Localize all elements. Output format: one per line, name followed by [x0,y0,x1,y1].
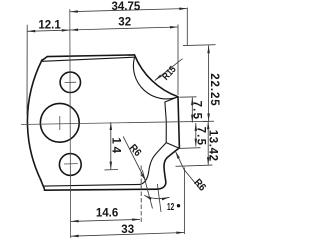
svg-text:32: 32 [118,17,131,29]
leader R6 upper [123,137,146,182]
vertical hole centerline [69,9,72,238]
top small circle horizontal tick [65,81,77,83]
dim 14 line [110,122,112,169]
top-left chamfer [42,57,48,61]
dimension graphics [27,8,216,237]
svg-text:13.42: 13.42 [207,130,219,161]
dim 33 extension line right [183,168,185,235]
bottom edge bevel line [44,184,140,186]
bottom edge outer [44,189,157,190]
big hole [40,103,79,142]
angle 12 dimension arc [144,195,169,198]
angle 12 construction line B [157,184,161,212]
knife body outline [27,55,179,190]
horizontal big-circle centerline [21,121,207,124]
tail inner bevel S-curve [140,143,166,185]
dim 22.25 line [208,45,210,121]
dim 34.75 line [70,9,187,12]
svg-text:12: 12 [167,202,174,213]
bottom small hole [59,154,81,176]
leader R6 lower [175,151,200,189]
svg-text:12.1: 12.1 [38,19,61,31]
bottom small circle horizontal tick [64,163,78,165]
dim 12.1 extension line left [26,25,28,115]
svg-text:34.75: 34.75 [112,1,141,13]
dim 22.25 bottom tick [203,120,214,122]
R15 outer arc [135,55,179,97]
dimension texts [38,1,220,236]
top edge bevel line [42,57,134,61]
right land outer edge [178,97,179,149]
svg-text:14: 14 [110,137,122,153]
tail outer S-curve [157,148,179,189]
big circle vertical tick [59,116,61,130]
dim 7.5 lower line [195,123,197,146]
svg-text:R15: R15 [160,64,179,83]
top small hole [60,72,80,92]
bottom-left chamfer [41,180,45,189]
degree dot [177,204,180,207]
dim 33 line [71,233,184,237]
dim 34.75 extension line right [186,8,188,46]
dim 32 extension line right [177,25,179,96]
dim 7.5 upper line [191,97,193,122]
leader R15 [155,59,183,81]
right land bevel heel [165,97,179,148]
svg-text:R6: R6 [191,177,208,194]
svg-text:7.5: 7.5 [190,101,202,120]
svg-text:22.25: 22.25 [208,73,220,106]
dim 7.5 lower extension line [179,147,201,150]
top edge outer [47,55,134,57]
dim 13.42 bottom extension line [176,165,213,166]
dim 12.1 line [27,30,69,31]
dim 32 line [70,27,178,30]
R15 inner bevel arc [133,58,177,99]
svg-text:33: 33 [121,224,134,236]
dim 7.5 upper extension line [180,96,197,98]
dim 13.42 line [207,121,209,164]
angle 12 construction line A [142,170,152,209]
dim 14.6 extension line right [140,166,142,223]
svg-text:R6: R6 [127,142,144,159]
svg-text:7.5: 7.5 [194,127,206,146]
centerlines [21,9,207,238]
left edge arc [27,60,42,180]
svg-text:14.6: 14.6 [96,207,118,219]
dim 14.6 line [71,219,140,221]
dim 22.25 top extension line [183,44,216,47]
dim 14 bottom tick [105,169,119,171]
